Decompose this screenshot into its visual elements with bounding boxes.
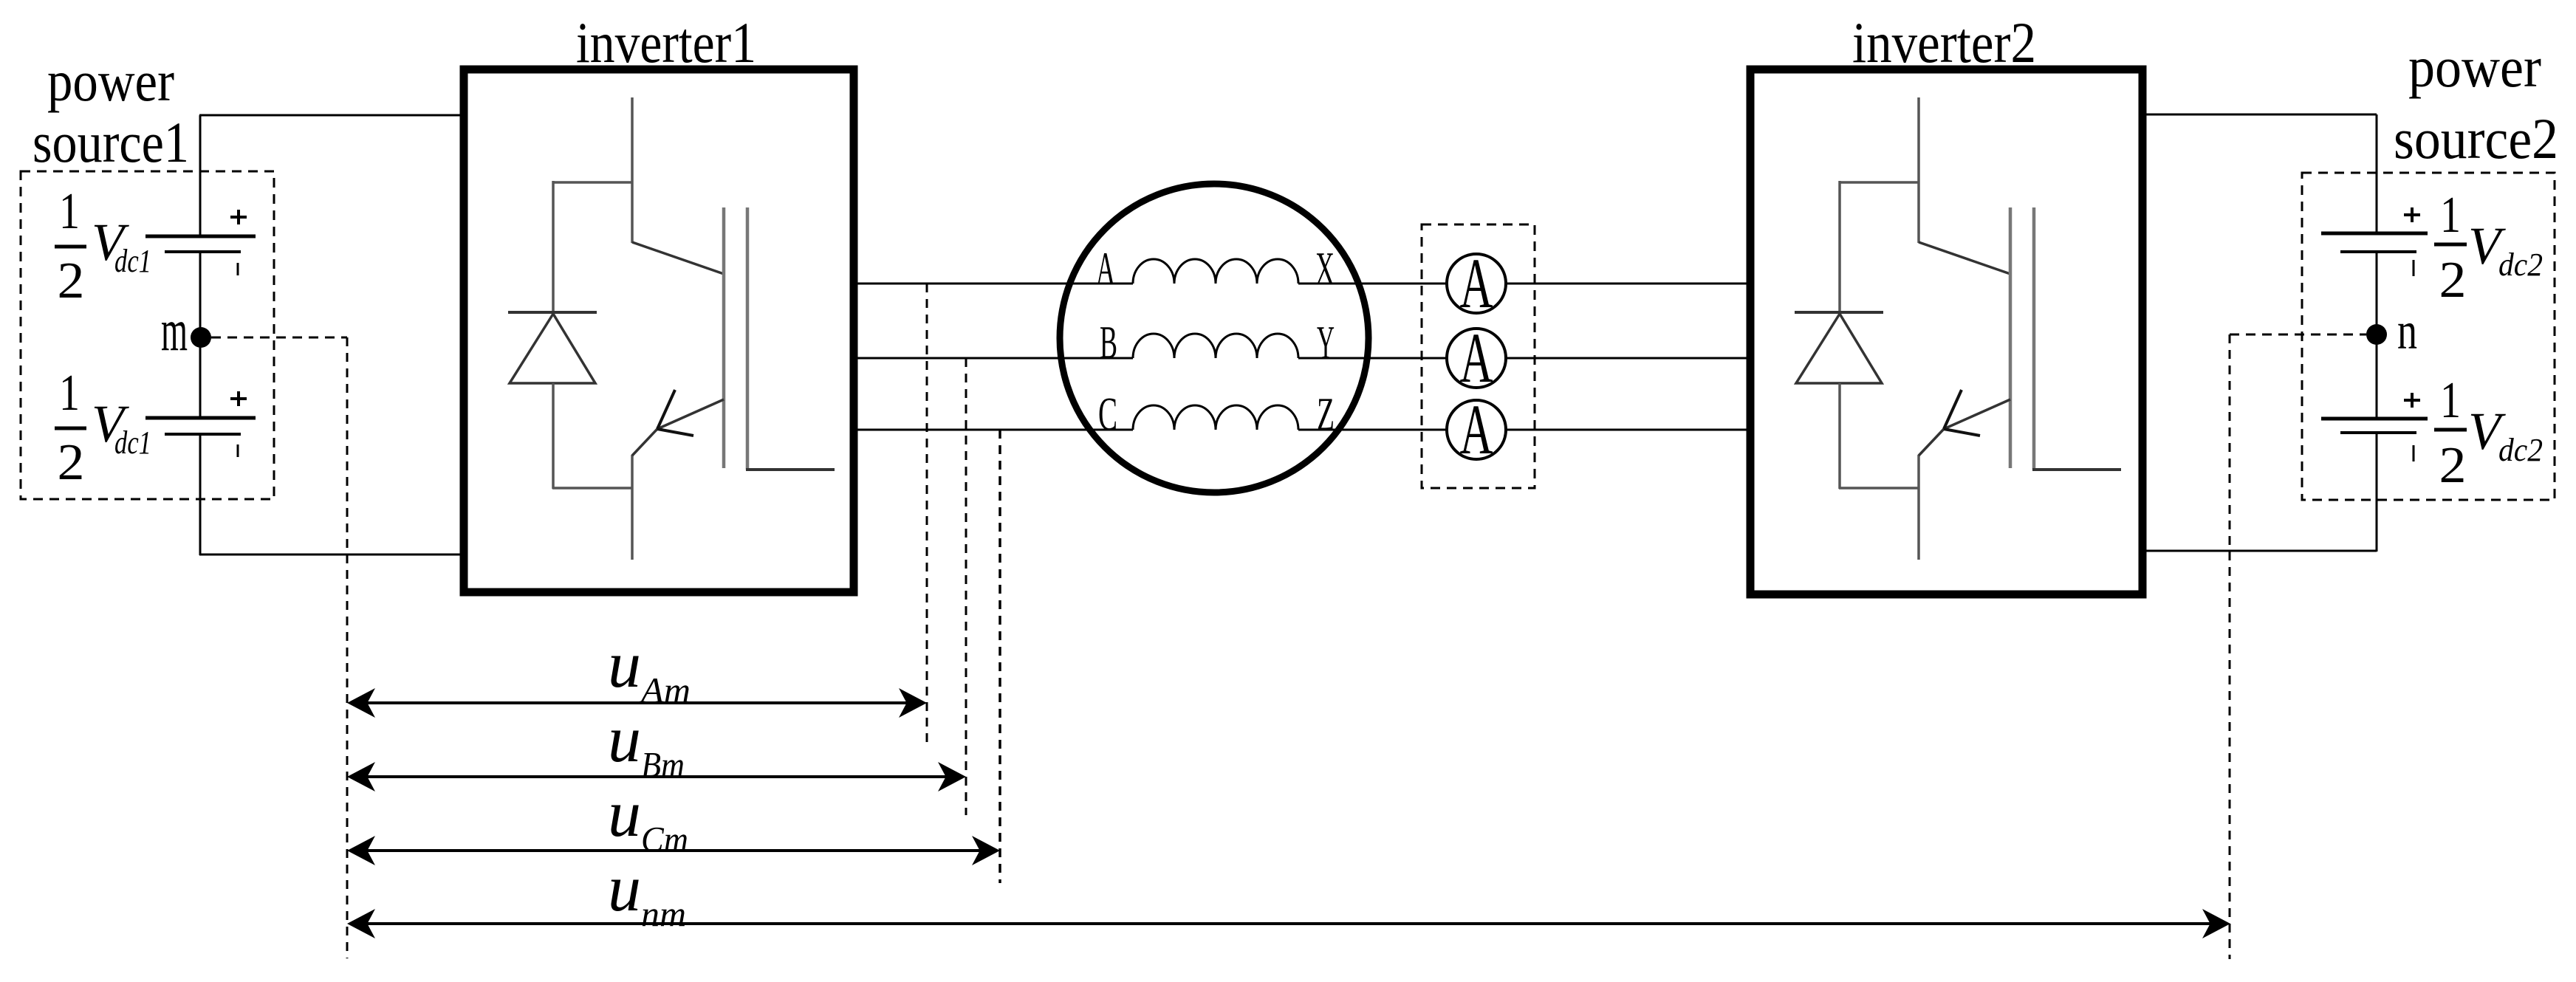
svg-text:m: m — [161, 298, 188, 363]
svg-text:u: u — [608, 777, 641, 851]
svg-text:Bm: Bm — [641, 744, 685, 785]
svg-text:2: 2 — [58, 434, 85, 491]
svg-text:source2: source2 — [2394, 106, 2558, 171]
svg-text:power: power — [2408, 35, 2541, 99]
svg-text:inverter2: inverter2 — [1852, 10, 2036, 75]
svg-text:dc1: dc1 — [114, 425, 151, 461]
svg-text:2: 2 — [2439, 252, 2467, 309]
svg-text:Z: Z — [1317, 388, 1335, 440]
svg-text:Cm: Cm — [641, 819, 688, 859]
svg-text:B: B — [1100, 316, 1117, 368]
svg-text:1: 1 — [59, 365, 80, 422]
svg-text:power: power — [47, 49, 174, 113]
svg-text:X: X — [1315, 242, 1335, 295]
svg-text:A: A — [1460, 244, 1493, 323]
svg-text:1: 1 — [59, 183, 80, 240]
svg-text:dc1: dc1 — [114, 243, 151, 279]
svg-text:2: 2 — [58, 253, 85, 309]
svg-text:dc2: dc2 — [2498, 247, 2543, 283]
svg-text:Am: Am — [639, 670, 691, 710]
svg-text:inverter1: inverter1 — [576, 10, 756, 75]
svg-text:u: u — [608, 628, 641, 701]
svg-text:2: 2 — [2439, 437, 2467, 494]
svg-text:1: 1 — [2440, 372, 2461, 429]
svg-text:nm: nm — [641, 893, 686, 934]
svg-text:A: A — [1460, 390, 1493, 469]
svg-text:C: C — [1098, 388, 1117, 440]
svg-text:u: u — [608, 852, 641, 925]
svg-text:Y: Y — [1317, 316, 1335, 368]
svg-text:u: u — [608, 703, 641, 776]
svg-text:A: A — [1096, 242, 1115, 295]
svg-text:source1: source1 — [32, 110, 189, 174]
svg-text:1: 1 — [2440, 187, 2461, 244]
svg-text:dc2: dc2 — [2498, 432, 2543, 468]
svg-text:n: n — [2397, 301, 2417, 360]
svg-text:A: A — [1460, 318, 1493, 397]
